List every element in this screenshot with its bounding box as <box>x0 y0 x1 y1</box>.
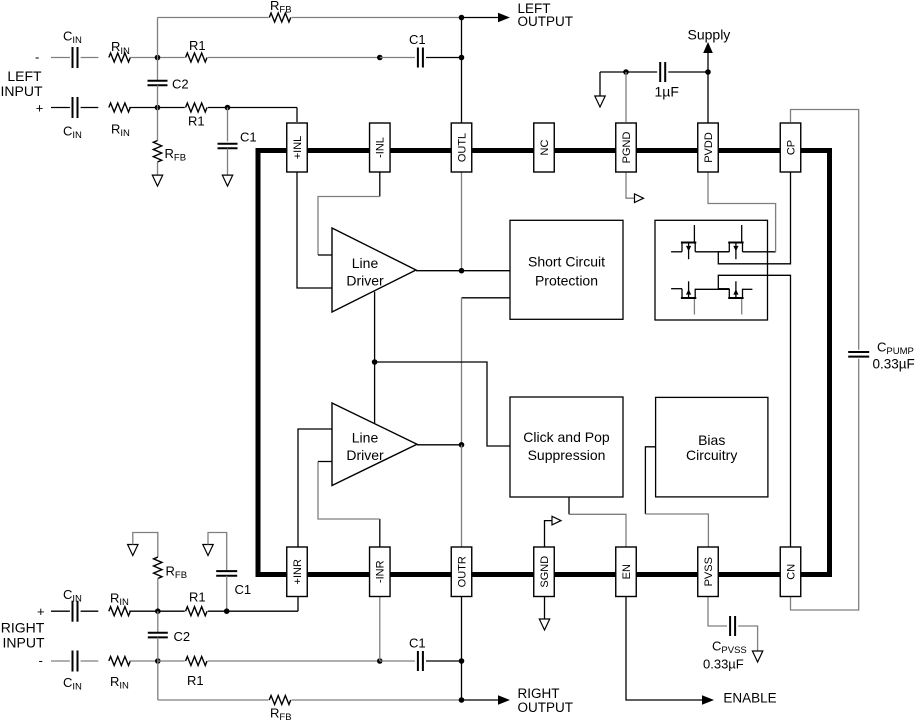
wire to +INR pin <box>227 610 298 612</box>
transistor Q4 (bottom-right) <box>728 297 743 299</box>
capacitor CPUMP <box>848 351 869 353</box>
svg-text:Bias: Bias <box>698 432 725 448</box>
svg-text:Suppression: Suppression <box>528 447 606 463</box>
junction node L+ <box>155 105 161 111</box>
capacitor CPVSS <box>729 616 731 636</box>
resistor R1 (right -) <box>186 657 207 666</box>
ground supply bypass <box>595 96 605 107</box>
svg-text:RIGHT: RIGHT <box>1 620 45 636</box>
pin +INL <box>287 123 308 172</box>
pin -INL <box>370 123 391 172</box>
pin PVSS <box>698 547 719 597</box>
junction +INR node <box>224 608 230 614</box>
junction OUTL/C1 node <box>459 55 465 61</box>
wire - input to CIN <box>51 660 70 662</box>
svg-text:OUTPUT: OUTPUT <box>518 14 574 29</box>
svg-text:INPUT: INPUT <box>1 83 43 99</box>
wire OUTR sense vertical <box>461 298 463 445</box>
svg-text:CP: CP <box>785 140 797 155</box>
svg-text:PVDD: PVDD <box>703 132 715 163</box>
wire node L- up to RFB row <box>157 18 159 58</box>
wire SCP to OUTR sense <box>462 297 511 299</box>
wire SGND internal arrow <box>545 521 553 547</box>
capacitor C1 (right feedback) <box>417 651 419 671</box>
svg-text:OUTR: OUTR <box>456 556 468 587</box>
svg-text:ENABLE: ENABLE <box>723 690 776 705</box>
capacitor C1 (left shunt) with leads <box>227 108 229 142</box>
svg-text:Line: Line <box>352 255 379 271</box>
junction feedback node <box>372 359 378 365</box>
wire PVDD to Q2 <box>708 172 776 252</box>
transistor Q1 (top-left) <box>681 242 696 244</box>
wire RFB row left segment <box>158 17 269 19</box>
svg-text:R1: R1 <box>187 673 204 688</box>
svg-text:+: + <box>37 604 45 619</box>
ground right RFB (top of chain) <box>128 545 138 556</box>
block Short Circuit Protection <box>510 220 623 319</box>
capacitor CIN (right minus) <box>72 651 74 672</box>
resistor RFB (left, top row) <box>269 13 290 22</box>
capacitor C1 (left feedback) <box>417 48 419 68</box>
svg-text:SGND: SGND <box>539 556 551 588</box>
wire PVSS to CPVSS <box>708 597 727 627</box>
wire - input to CIN <box>51 57 70 59</box>
wire OUTR pin up (int) <box>461 445 463 547</box>
wire CPS to EN pin <box>568 497 570 514</box>
junction OUTR internal node <box>459 442 465 448</box>
wire C1 chain to ground <box>208 533 227 571</box>
junction node R+ <box>155 608 161 614</box>
wire R1 to +INL C1 node <box>208 107 228 109</box>
junction -INL node <box>377 55 383 61</box>
pin PVDD <box>698 123 719 172</box>
arrow RIGHT OUTPUT <box>498 695 510 705</box>
svg-text:Protection: Protection <box>535 272 598 288</box>
resistor RIN (left -) <box>109 53 130 62</box>
svg-text:NC: NC <box>539 140 551 156</box>
resistor R1 (left -) <box>186 53 207 62</box>
block Bias Circuitry <box>656 397 768 497</box>
wire Bias to PVSS pin <box>645 447 655 514</box>
svg-text:R1: R1 <box>189 38 206 53</box>
wire driver output to OUTR <box>417 444 462 446</box>
wire +INL to driver <box>297 172 332 288</box>
op-amp U1 Line Driver (left) <box>332 228 416 312</box>
wire PVDD pin up <box>707 72 709 123</box>
wire RFB bottom row left segment <box>158 699 269 701</box>
wire node R- to R1 <box>158 660 185 662</box>
wire RIN to node L+ <box>129 107 157 109</box>
wire -INR node to C1 <box>380 660 415 662</box>
wire CIN to RIN <box>81 107 99 109</box>
wire R1 to +INR node <box>208 610 227 612</box>
svg-text:C2: C2 <box>174 629 191 644</box>
junction OUTL internal node <box>459 268 465 274</box>
svg-text:CN: CN <box>785 564 797 580</box>
svg-text:Driver: Driver <box>346 272 384 288</box>
capacitor C2 (left) with leads <box>157 58 159 81</box>
wire R1 to -INR node <box>208 660 380 662</box>
svg-text:0.33µF: 0.33µF <box>703 657 744 672</box>
wire CIN to RIN <box>81 660 99 662</box>
pin -INR <box>370 547 391 597</box>
pin SGND <box>534 547 555 597</box>
wire Q4 source lead <box>743 288 753 290</box>
svg-text:Driver: Driver <box>346 447 384 463</box>
arrow Supply up <box>703 42 713 53</box>
ground SGND <box>539 619 549 630</box>
wire feedback node to right driver <box>374 362 376 424</box>
wire RIN to node R- <box>129 660 158 662</box>
wire OUTL pin down (int) <box>461 172 463 271</box>
resistor R1 (right +) <box>186 607 207 616</box>
svg-text:R1: R1 <box>188 114 205 129</box>
junction -INR node <box>377 658 383 664</box>
junction RFB/OUTR bottom node <box>459 697 465 703</box>
resistor RFB (right, bottom row) <box>269 696 290 705</box>
svg-text:-: - <box>35 50 39 65</box>
wire CIN to RIN <box>81 57 99 59</box>
capacitor C2 (right) with leads <box>157 611 159 633</box>
pin EN <box>616 547 637 597</box>
junction RFB/OUTL top node <box>459 15 465 21</box>
junction PGND/1uF node <box>623 69 629 75</box>
wire PGND internal arrow <box>626 172 635 198</box>
wire node R- down to RFB row <box>157 661 159 700</box>
ground CPVSS <box>752 651 762 662</box>
wire C1 to OUTR vertical <box>426 660 462 662</box>
wire RFB row right segment <box>292 17 462 19</box>
transistor Q3 (bottom-left) <box>681 297 696 299</box>
junction node R- <box>155 658 161 664</box>
IC body border <box>258 151 830 575</box>
svg-text:Line: Line <box>352 430 379 446</box>
svg-text:Circuitry: Circuitry <box>686 447 737 463</box>
pin PGND <box>616 123 637 172</box>
svg-text:0.33µF: 0.33µF <box>873 357 915 372</box>
wire C1 to +INR node <box>226 576 228 612</box>
svg-text:OUTPUT: OUTPUT <box>518 700 574 715</box>
wire +INR to driver <box>298 429 332 547</box>
wire node L+ to R1 <box>158 107 185 109</box>
pin OUTL <box>451 123 472 172</box>
junction OUTR/C1 node <box>459 658 465 664</box>
wire Q1 source to Q2 gate node <box>695 251 729 253</box>
svg-text:OUTL: OUTL <box>456 133 468 162</box>
resistor RFB (right, shunt) <box>154 557 162 578</box>
junction PVDD/1uF node <box>705 69 711 75</box>
wire -INL to driver <box>379 172 381 197</box>
wire RFB to node R+ <box>157 579 159 612</box>
capacitor CIN (left plus) <box>72 97 74 118</box>
svg-text:-: - <box>39 653 43 668</box>
svg-text:EN: EN <box>621 564 633 579</box>
arrow ENABLE <box>702 695 714 705</box>
wire EN to ENABLE arrow <box>626 597 704 701</box>
svg-text:LEFT: LEFT <box>7 68 42 84</box>
wire feedback node to CPS <box>375 362 510 446</box>
junction +INL/C1 node <box>225 105 231 111</box>
wire OUTR vertical (ext) <box>461 597 463 701</box>
wire RIN to node L- <box>129 57 157 59</box>
svg-text:C1: C1 <box>409 32 426 47</box>
wire SGND pin down <box>544 597 546 620</box>
wire RFB bottom row right segment <box>292 699 462 701</box>
pin CN <box>780 547 801 597</box>
wire CP to right rail <box>791 110 859 350</box>
wire driver output to SCP <box>416 270 510 272</box>
ground left C1 <box>222 175 232 186</box>
block Click and Pop Suppression <box>510 397 623 497</box>
op-amp U2 Line Driver (right) <box>332 403 417 486</box>
internal arrow SGND <box>552 516 561 525</box>
wire RIN to node R+ <box>129 610 158 612</box>
svg-text:-INR: -INR <box>375 560 387 583</box>
svg-text:PGND: PGND <box>621 132 633 164</box>
svg-text:1µF: 1µF <box>655 84 679 100</box>
svg-text:-INL: -INL <box>375 137 387 158</box>
transistor Q2 (top-right) <box>728 242 743 244</box>
svg-text:PVSS: PVSS <box>703 557 715 586</box>
wire right rail to CN <box>791 359 859 610</box>
wire CIN to RIN <box>81 610 99 612</box>
wire OUTL vertical (ext) <box>461 18 463 124</box>
wire node L- to R1 <box>158 57 185 59</box>
capacitor CIN (right plus) <box>72 601 74 622</box>
wire to +INL pin <box>228 107 298 109</box>
ground left RFB <box>152 175 162 186</box>
wire -INR pin down <box>379 597 381 662</box>
arrow LEFT OUTPUT <box>498 13 510 23</box>
wire Q2 source lead <box>743 251 776 253</box>
wire + input to CIN <box>51 107 70 109</box>
svg-text:C1: C1 <box>409 636 426 651</box>
wire CPVSS to ground <box>738 626 757 652</box>
svg-text:RIGHT: RIGHT <box>518 686 560 701</box>
wire CN to Q3/Q4 node <box>718 275 790 547</box>
svg-text:Supply: Supply <box>688 27 731 43</box>
wire CP to Q1/Q2 node <box>718 172 790 264</box>
wire R1 to -INL node <box>208 57 380 59</box>
wire to RIGHT OUTPUT arrow <box>462 699 501 701</box>
svg-text:C1: C1 <box>240 129 257 144</box>
svg-text:C2: C2 <box>172 76 189 91</box>
wire PGND pin up <box>625 72 627 122</box>
wire -INR to driver <box>379 519 381 547</box>
capacitor CIN (left minus) <box>72 47 74 68</box>
wire left driver feedback tap <box>374 292 376 362</box>
wire node R+ to R1 <box>158 610 185 612</box>
resistor RIN (right +) <box>109 607 130 616</box>
pin +INR <box>287 547 308 597</box>
ground right C1 (top of chain) <box>203 545 213 556</box>
wire + input to CIN <box>51 610 70 612</box>
block charge-pump switches <box>655 220 768 320</box>
resistor RIN (right -) <box>109 657 130 666</box>
pin NC <box>534 123 555 172</box>
wire C1 to OUTL node <box>426 57 462 59</box>
svg-text:Click and Pop: Click and Pop <box>523 429 610 445</box>
capacitor C1 (right shunt) <box>216 570 237 572</box>
junction node L- <box>155 55 161 61</box>
wire PGND node to ground <box>600 71 626 73</box>
wire supply arrow to PVDD node <box>707 52 709 72</box>
svg-text:+INL: +INL <box>292 136 304 160</box>
wire RFB chain to ground <box>133 533 158 558</box>
svg-text:C1: C1 <box>235 582 252 597</box>
internal arrow PGND <box>635 194 644 203</box>
wire -INL node to C1 <box>380 57 415 59</box>
pin CP <box>780 123 801 172</box>
pin OUTR <box>451 547 472 597</box>
svg-text:R1: R1 <box>189 590 206 605</box>
svg-text:+INR: +INR <box>292 559 304 584</box>
svg-text:+: + <box>36 100 44 115</box>
wire to LEFT OUTPUT arrow <box>462 17 501 19</box>
svg-text:Short Circuit: Short Circuit <box>528 254 605 270</box>
svg-text:INPUT: INPUT <box>3 635 45 651</box>
resistor RIN (left +) <box>109 103 130 112</box>
resistor RFB (left, shunt) with leads <box>157 108 159 141</box>
wire Q3 source to Q4 gate node <box>695 288 729 290</box>
capacitor 1uF with leads <box>626 71 657 73</box>
resistor R1 (left +) <box>186 103 207 112</box>
